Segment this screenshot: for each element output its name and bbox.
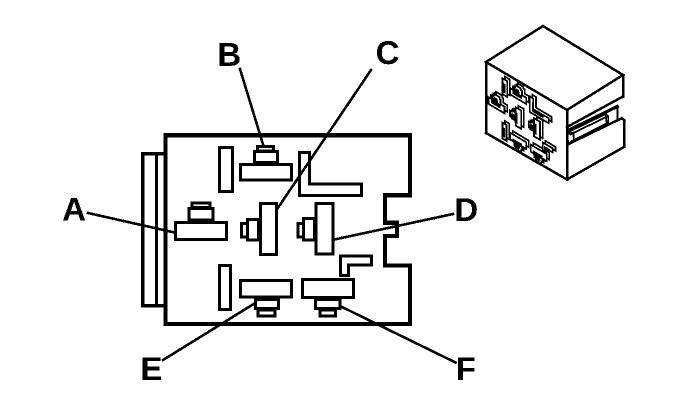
- leader line A: [88, 213, 175, 233]
- leader line C: [278, 70, 372, 209]
- leader line B: [240, 69, 264, 146]
- 3d right edge: [622, 75, 625, 97]
- 3d groove floor dark edge: [568, 107, 617, 131]
- terminal A: [176, 203, 227, 240]
- terminal F: [303, 280, 354, 317]
- 3d slot A: [489, 92, 508, 114]
- 3d lower block right wall: [623, 120, 626, 147]
- 3d left edge: [485, 62, 488, 133]
- 3d slot F: [531, 143, 550, 164]
- 3d top face: [486, 26, 623, 110]
- 3d slot D: [529, 117, 543, 140]
- label A: [63, 198, 85, 221]
- 3d front vertical edge: [566, 110, 569, 180]
- 3d slot C: [510, 106, 524, 129]
- leader line F: [341, 307, 456, 363]
- 3d slot vs1: [503, 77, 510, 97]
- leader line D: [335, 214, 454, 240]
- label E: [143, 357, 162, 380]
- terminal C: [242, 204, 277, 255]
- terminal E: [241, 281, 292, 316]
- label D: [457, 198, 477, 221]
- 3d slot B: [510, 83, 529, 104]
- 3d connector isometric view: [486, 26, 624, 180]
- 3d lock bar front top: [571, 117, 608, 135]
- slot gamma-shape near F: [341, 256, 372, 276]
- 3d bottom-left edge: [486, 133, 567, 180]
- label C: [377, 41, 399, 64]
- 3d lock bar right end: [606, 114, 609, 124]
- slot upper-left vertical: [220, 148, 233, 192]
- leader line E: [163, 304, 255, 361]
- 3d slot L: [530, 95, 552, 124]
- 3d slot G: [543, 141, 556, 153]
- terminal B: [241, 147, 292, 181]
- 3d lip bottom line: [567, 97, 623, 128]
- 3d mating face slots: [489, 77, 556, 165]
- 3d bottom-right edge: [567, 147, 624, 180]
- 3d slot vs2: [502, 121, 509, 141]
- 3d groove far wall: [616, 107, 618, 121]
- label B: [219, 43, 239, 66]
- 3d lock bar front bottom: [571, 123, 607, 141]
- 3d lower block top edge: [569, 118, 622, 144]
- 3d lower block corner: [622, 118, 625, 120]
- terminal D: [298, 204, 333, 255]
- slot lower-left vertical: [220, 266, 231, 310]
- connector body outline: [166, 135, 411, 324]
- 3d lock bar left end cap: [567, 133, 574, 144]
- label F: [458, 357, 475, 380]
- slot top L-shape: [300, 153, 362, 196]
- 3d lock bar top surface: [569, 114, 606, 132]
- 3d slot E: [510, 131, 529, 152]
- left mounting bracket: [143, 154, 166, 306]
